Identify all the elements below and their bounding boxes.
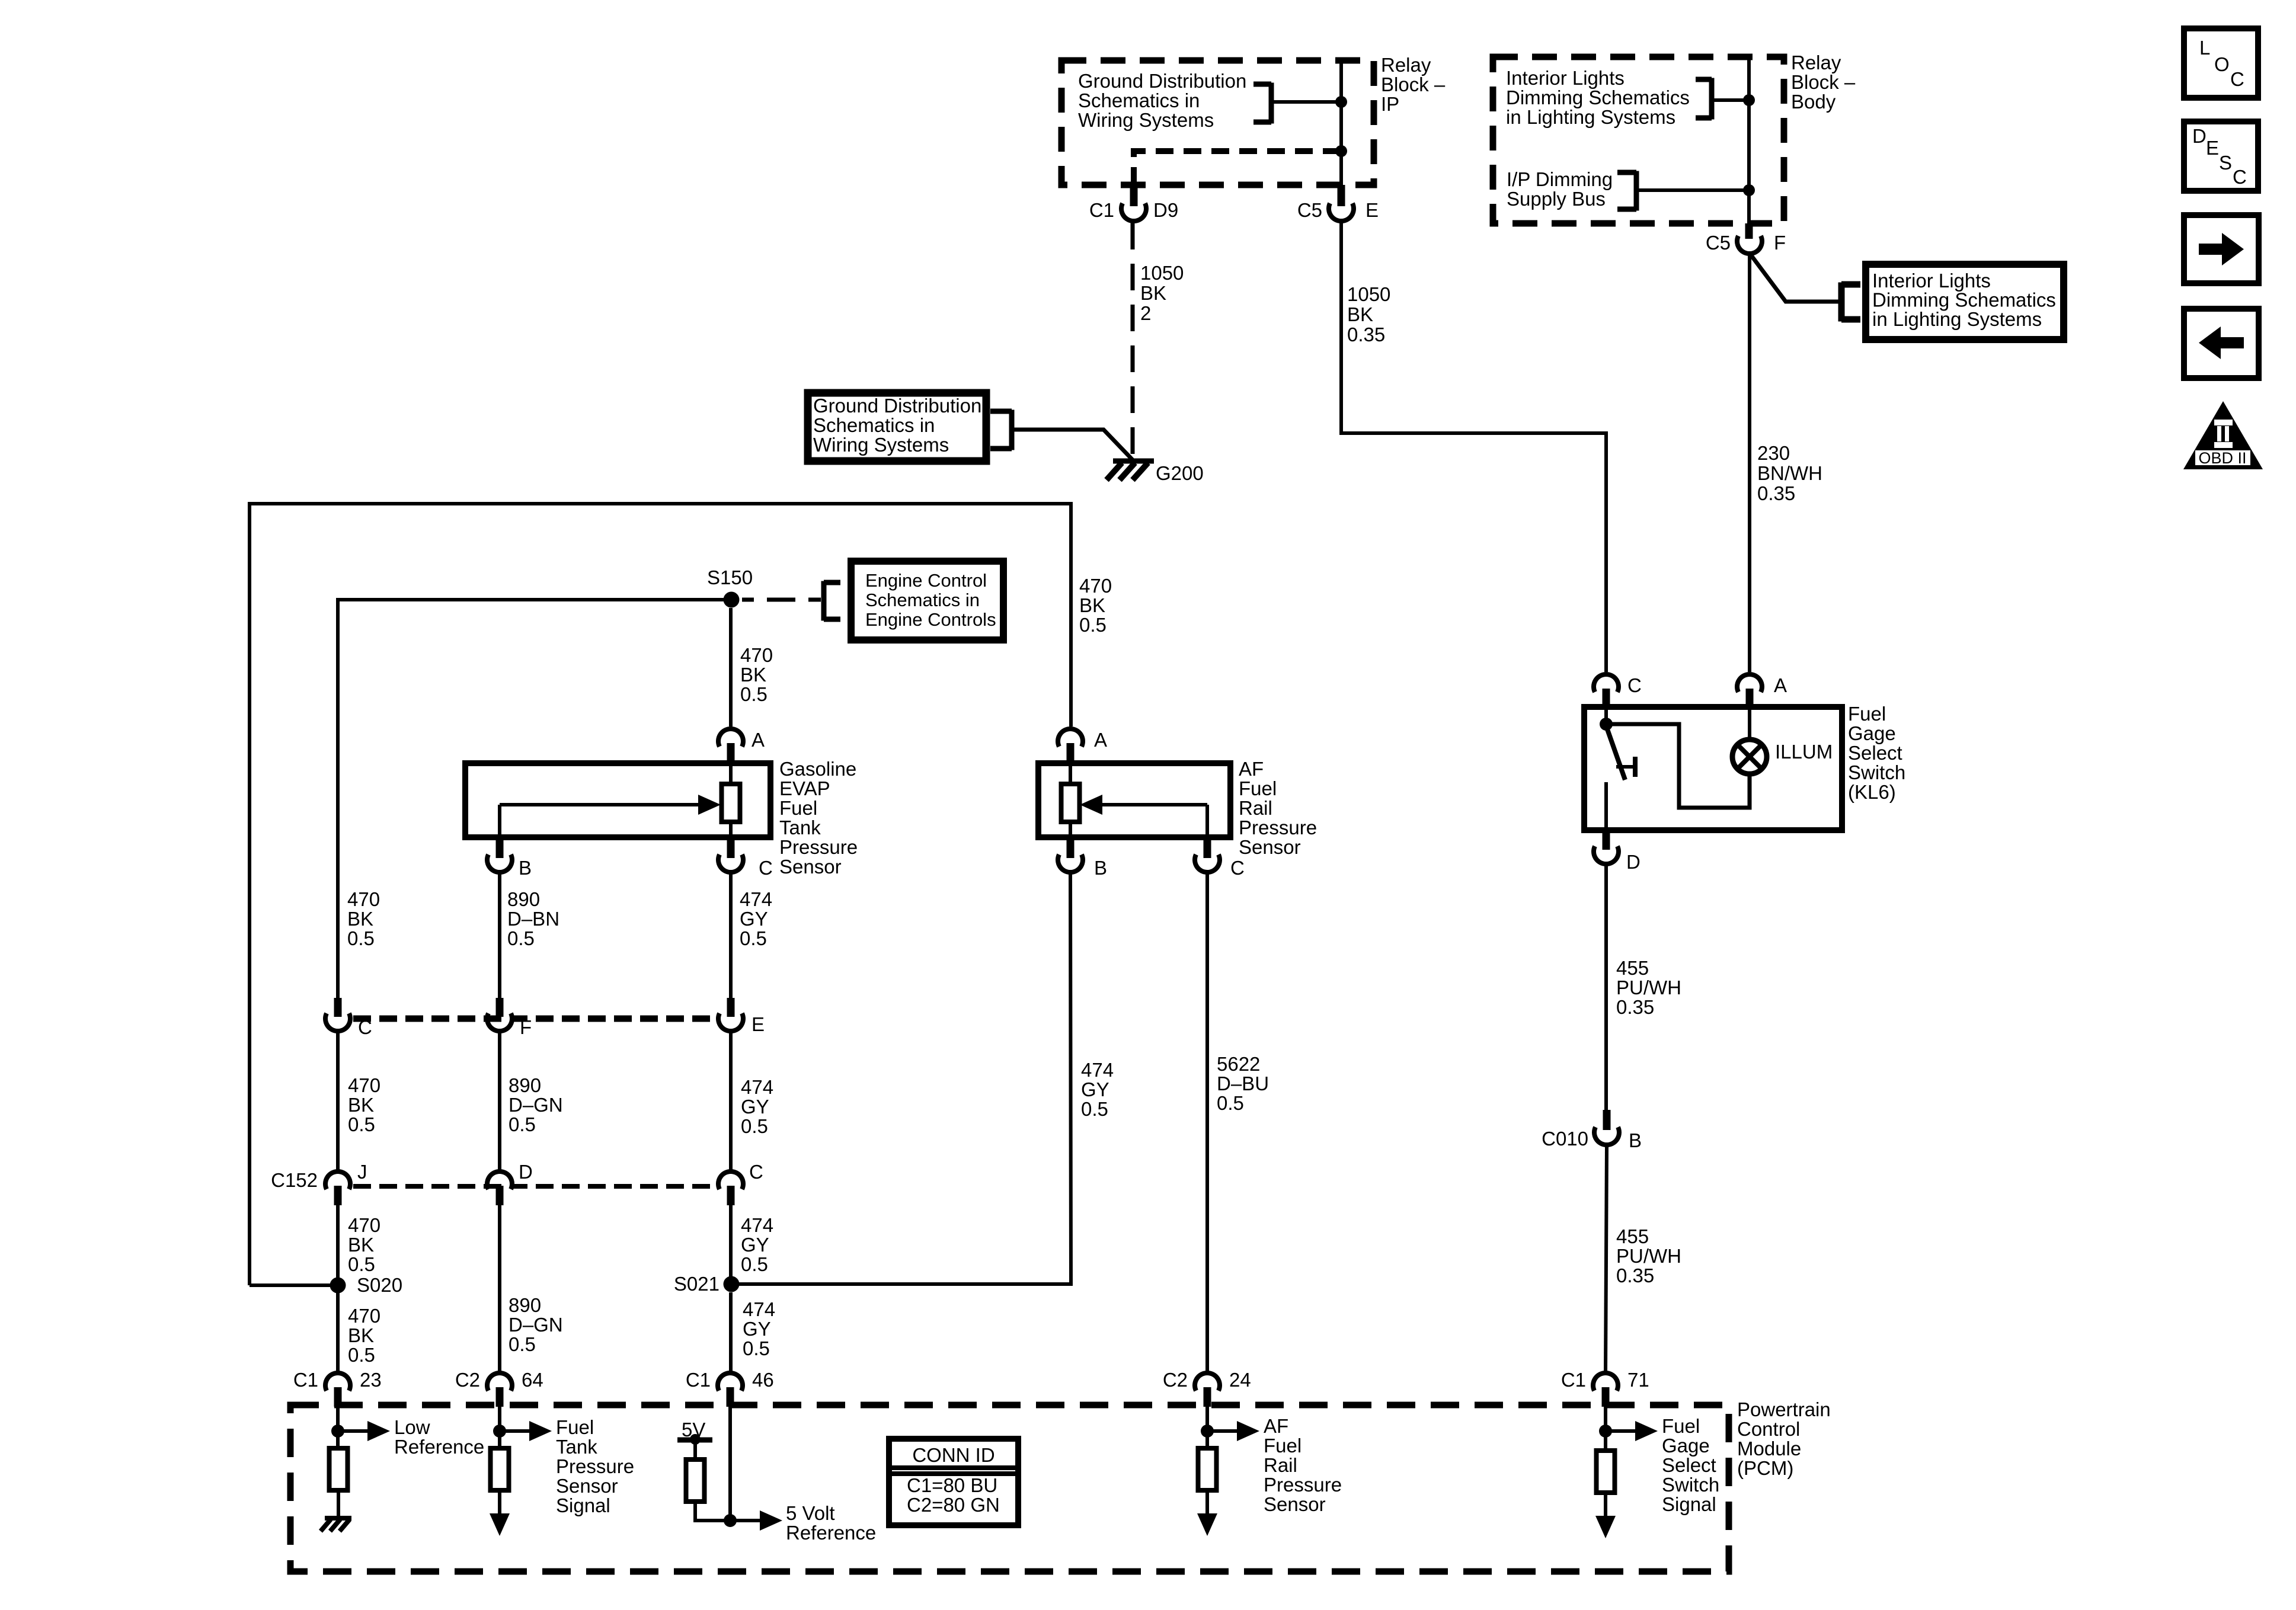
junction dot Body bus lower [1743, 184, 1755, 196]
svg-text:GY: GY [740, 908, 768, 930]
svg-text:BK: BK [740, 664, 766, 686]
relay block IP inner connector dashed box [1134, 151, 1341, 185]
relay block IP dashed outline [1061, 60, 1374, 185]
wire to resistor col5 [1604, 1431, 1607, 1451]
wire EVAP resistor to C pin [729, 822, 733, 837]
svg-text:C2=80 GN: C2=80 GN [907, 1494, 1000, 1516]
svg-text:474: 474 [741, 1076, 773, 1098]
svg-text:C1: C1 [686, 1369, 711, 1391]
svg-text:OBD II: OBD II [2198, 449, 2246, 467]
svg-text:Engine Controls: Engine Controls [865, 609, 996, 630]
svg-text:BK: BK [348, 1324, 374, 1346]
connector pin C EVAP [727, 837, 735, 858]
svg-text:E: E [1366, 199, 1379, 221]
CONN ID divider [889, 1465, 1018, 1470]
svg-text:Sensor: Sensor [779, 856, 842, 878]
wire col1 vertical upper [336, 598, 340, 998]
svg-text:Select: Select [1662, 1454, 1716, 1476]
svg-text:D–BU: D–BU [1217, 1073, 1269, 1094]
svg-text:Engine Control: Engine Control [865, 570, 987, 591]
switch blade [1606, 726, 1625, 780]
svg-text:Block –: Block – [1381, 73, 1446, 95]
svg-text:Supply Bus: Supply Bus [1507, 188, 1606, 210]
dashed wire S150 to engine control bracket [742, 598, 821, 602]
svg-text:AF: AF [1264, 1415, 1288, 1437]
svg-text:Body: Body [1791, 91, 1836, 113]
connector C5 E [1329, 203, 1354, 221]
svg-text:EVAP: EVAP [779, 777, 830, 799]
svg-text:AF: AF [1239, 758, 1264, 780]
svg-text:PU/WH: PU/WH [1616, 977, 1681, 998]
svg-text:PU/WH: PU/WH [1616, 1245, 1681, 1267]
svg-text:455: 455 [1616, 1225, 1649, 1247]
svg-text:Fuel: Fuel [1264, 1435, 1302, 1457]
svg-text:BK: BK [348, 1094, 374, 1116]
connector C1 71 [1593, 1373, 1618, 1391]
svg-text:Wiring Systems: Wiring Systems [813, 434, 949, 456]
svg-text:0.5: 0.5 [741, 1253, 768, 1275]
svg-text:Relay: Relay [1791, 52, 1841, 73]
svg-text:Control: Control [1737, 1418, 1800, 1440]
svg-text:Tank: Tank [779, 817, 821, 838]
wire C1 23 into PCM [336, 1406, 340, 1431]
connector row2 J [325, 1172, 350, 1189]
arrow EVAP wiper [500, 803, 703, 806]
svg-text:D–GN: D–GN [509, 1094, 563, 1116]
svg-text:0.5: 0.5 [1081, 1098, 1108, 1120]
connector pin A AF [1058, 729, 1083, 747]
svg-text:Switch: Switch [1848, 761, 1905, 783]
wire to resistor col4 [1205, 1431, 1209, 1448]
svg-text:0.35: 0.35 [1347, 324, 1385, 345]
box AF Fuel Rail Pressure Sensor [1038, 763, 1230, 837]
wire AF resistor to B pin [1069, 822, 1072, 837]
connector C5 E stub [1338, 185, 1345, 206]
wire S150 horizontal [338, 598, 731, 601]
svg-text:Gage: Gage [1848, 722, 1896, 744]
svg-text:IP: IP [1381, 93, 1399, 115]
wire AF C down to C2 24 [1205, 874, 1209, 1372]
wire col3 C-row1 [729, 874, 733, 998]
svg-text:470: 470 [348, 1074, 380, 1096]
dashed line connector row2 [353, 1184, 716, 1189]
wire col2 row1-row2 [498, 1033, 501, 1170]
svg-text:Interior Lights: Interior Lights [1506, 67, 1625, 89]
svg-text:C: C [358, 1016, 372, 1038]
svg-text:Dimming Schematics: Dimming Schematics [1872, 289, 2056, 311]
svg-text:C: C [1627, 674, 1642, 696]
wire loop into S020 [250, 1283, 338, 1287]
wire left vertical loop [248, 502, 251, 1285]
svg-text:5622: 5622 [1217, 1053, 1260, 1075]
svg-text:BK: BK [1347, 303, 1373, 325]
wire vertical bus in relay block IP [1339, 60, 1343, 185]
connector C1 46 [718, 1373, 743, 1391]
connector row2 C [718, 1172, 743, 1189]
box Fuel Gage Select Switch [1584, 707, 1842, 830]
svg-text:Powertrain: Powertrain [1737, 1398, 1831, 1420]
svg-text:470: 470 [348, 1214, 380, 1236]
svg-text:(KL6): (KL6) [1848, 781, 1896, 803]
svg-text:Sensor: Sensor [1264, 1493, 1326, 1515]
arrow down col5 [1604, 1493, 1607, 1521]
wire C010 to C1 71 [1606, 1147, 1607, 1372]
arrow down col4 [1205, 1490, 1209, 1518]
svg-text:I/P Dimming: I/P Dimming [1507, 168, 1613, 190]
svg-text:Signal: Signal [1662, 1493, 1716, 1515]
svg-text:Pressure: Pressure [1264, 1474, 1342, 1496]
svg-text:ILLUM: ILLUM [1775, 741, 1833, 763]
svg-text:Switch: Switch [1662, 1474, 1719, 1496]
svg-text:C152: C152 [271, 1169, 318, 1191]
connector C2 64 [487, 1373, 512, 1391]
svg-text:Module: Module [1737, 1438, 1801, 1459]
svg-text:0.5: 0.5 [1217, 1092, 1244, 1114]
svg-text:Pressure: Pressure [779, 836, 858, 858]
svg-text:0.5: 0.5 [743, 1337, 770, 1359]
svg-text:F: F [520, 1016, 532, 1038]
wire C5 E down-right to switch C [1341, 223, 1606, 672]
svg-text:Reference: Reference [786, 1522, 876, 1544]
svg-text:B: B [1094, 857, 1107, 879]
wire switch D to C010 [1604, 865, 1608, 1110]
wire 5V resistor to junction [695, 1502, 730, 1521]
resistor EVAP sensor element [722, 784, 740, 822]
icon OBD II triangle [2183, 401, 2263, 469]
svg-text:GY: GY [741, 1234, 769, 1256]
connector row2 D [487, 1172, 512, 1189]
svg-text:A: A [1774, 674, 1787, 696]
junction dot fuel tank signal [493, 1425, 506, 1438]
svg-text:A: A [752, 729, 765, 751]
svg-text:24: 24 [1229, 1369, 1251, 1391]
svg-text:Wiring Systems: Wiring Systems [1078, 109, 1214, 131]
wire bracket to G200 [1012, 430, 1133, 460]
wire AF wiper from C [1205, 805, 1209, 837]
svg-text:BK: BK [347, 908, 373, 930]
svg-text:B: B [519, 857, 532, 879]
svg-text:Fuel: Fuel [1848, 703, 1886, 725]
svg-text:474: 474 [741, 1214, 773, 1236]
svg-text:0.5: 0.5 [740, 927, 767, 949]
resistor PCM 5V [686, 1459, 705, 1502]
svg-text:in Lighting Systems: in Lighting Systems [1872, 308, 2042, 330]
svg-text:G200: G200 [1156, 462, 1204, 484]
svg-text:B: B [1629, 1129, 1642, 1151]
wire S021 to C1 46 [729, 1292, 733, 1372]
svg-text:S150: S150 [707, 566, 753, 588]
svg-text:D: D [519, 1161, 533, 1183]
wire bracket to bus (IP) [1271, 100, 1341, 104]
connector C2 24 [1195, 1373, 1220, 1391]
arrow AF wiper [1098, 803, 1207, 806]
svg-text:C: C [1230, 857, 1245, 879]
connector C5 F [1737, 236, 1762, 254]
wire col2 B-row1 [498, 874, 501, 998]
connector pin A switch [1737, 674, 1762, 692]
arrow AF signal [1207, 1429, 1242, 1433]
svg-text:0.5: 0.5 [348, 1253, 375, 1275]
box Engine Control Schematics in Engine Controls [851, 561, 1003, 640]
wire AF A to resistor [1069, 763, 1072, 784]
svg-text:0.35: 0.35 [1757, 482, 1795, 504]
wire C2 64 into PCM [498, 1406, 501, 1431]
svg-text:0.5: 0.5 [509, 1113, 536, 1135]
svg-text:in Lighting Systems: in Lighting Systems [1506, 106, 1675, 128]
svg-text:S: S [2219, 152, 2232, 174]
svg-text:0.5: 0.5 [509, 1333, 536, 1355]
svg-text:J: J [357, 1161, 367, 1183]
svg-text:C1: C1 [1089, 199, 1114, 221]
svg-text:C1: C1 [293, 1369, 318, 1391]
svg-text:470: 470 [347, 888, 380, 910]
bracket I/P dimming supply bus [1634, 171, 1639, 211]
svg-text:5 Volt: 5 Volt [786, 1502, 835, 1524]
svg-text:0.5: 0.5 [348, 1113, 375, 1135]
svg-text:C: C [759, 857, 773, 879]
connector pin A EVAP [718, 729, 743, 747]
connector row1 E [727, 998, 735, 1017]
svg-text:474: 474 [1081, 1059, 1114, 1081]
box Interior Lights Dimming Schematics in Lighting Systems [1866, 264, 2064, 340]
junction dot Body bus upper [1743, 94, 1755, 106]
connector C1 D9 [1121, 203, 1146, 221]
wire col1 row2-S020 [336, 1204, 340, 1285]
svg-text:890: 890 [509, 1294, 541, 1316]
svg-text:Fuel: Fuel [556, 1416, 594, 1438]
wire C1 46 into PCM [728, 1406, 732, 1521]
svg-text:Schematics in: Schematics in [1078, 89, 1200, 111]
wire C5 F down to switch A [1748, 255, 1751, 672]
svg-text:BN/WH: BN/WH [1757, 462, 1822, 484]
resistor PCM fuel tank [491, 1448, 509, 1490]
wire col1 row1-row2 [336, 1033, 340, 1170]
svg-text:C: C [2230, 68, 2244, 90]
arrow fuel tank signal [500, 1429, 534, 1433]
junction dot IP bus lower [1335, 145, 1347, 157]
svg-text:(PCM): (PCM) [1737, 1457, 1793, 1479]
lamp ILLUM cross [1738, 745, 1761, 769]
svg-text:0.5: 0.5 [507, 927, 535, 949]
svg-text:C: C [2233, 166, 2247, 188]
svg-text:Ground Distribution: Ground Distribution [813, 395, 981, 417]
svg-text:Fuel: Fuel [1662, 1415, 1700, 1437]
svg-text:1050: 1050 [1347, 283, 1390, 305]
wire bracket2 to bus (Body) [1636, 188, 1749, 192]
icon right-arrow [2199, 244, 2224, 255]
svg-text:0.35: 0.35 [1616, 996, 1654, 1018]
svg-text:Select: Select [1848, 742, 1902, 764]
svg-text:C2: C2 [455, 1369, 480, 1391]
svg-text:GY: GY [1081, 1078, 1109, 1100]
wire resistor to ground col1 [337, 1490, 340, 1518]
icon left-arrow box [2184, 309, 2259, 378]
relay block Body dashed outline [1493, 57, 1784, 223]
svg-text:Interior Lights: Interior Lights [1872, 270, 1991, 292]
svg-text:Gasoline: Gasoline [779, 758, 856, 780]
splice S150 [724, 592, 740, 608]
svg-text:GY: GY [741, 1096, 769, 1118]
svg-text:D9: D9 [1153, 199, 1178, 221]
wire col3 row1-row2 [729, 1033, 733, 1170]
wire 5V to resistor [693, 1440, 697, 1459]
svg-text:0.5: 0.5 [740, 683, 768, 705]
junction dot 5 volt reference [724, 1514, 737, 1527]
ground G200 [1113, 459, 1154, 464]
5V supply dot [690, 1434, 701, 1445]
dashed wire 1050 BK 2 to G200 [1131, 223, 1135, 456]
icon left-arrow [2219, 337, 2244, 348]
connector C010 B [1603, 1110, 1611, 1130]
svg-text:64: 64 [522, 1369, 543, 1391]
wire S150 down to EVAP A [729, 608, 733, 726]
junction dot IP bus upper [1335, 96, 1347, 108]
svg-text:Gage: Gage [1662, 1435, 1710, 1457]
svg-text:BK: BK [1079, 594, 1105, 616]
wire to resistor col2 [498, 1431, 501, 1448]
connector row1 F [496, 998, 504, 1017]
svg-text:C5: C5 [1297, 199, 1322, 221]
wire switch A to lamp [1748, 707, 1751, 740]
svg-text:O: O [2214, 53, 2230, 75]
svg-text:E: E [752, 1013, 765, 1035]
svg-text:1050: 1050 [1140, 262, 1184, 284]
icon OBD II pillar [2214, 420, 2233, 448]
wire bracket1 to bus (Body) [1712, 98, 1749, 102]
wire switch to lamp path [1610, 724, 1750, 808]
svg-text:C010: C010 [1542, 1128, 1588, 1150]
icon DESC box [2184, 121, 2258, 191]
connector C1 23 [325, 1373, 350, 1391]
svg-text:C: C [749, 1161, 763, 1183]
junction dot low reference [331, 1425, 344, 1438]
svg-text:Low: Low [394, 1416, 430, 1438]
svg-text:C2: C2 [1163, 1369, 1188, 1391]
svg-text:0.5: 0.5 [741, 1115, 768, 1137]
svg-text:Dimming Schematics: Dimming Schematics [1506, 87, 1690, 108]
wire EVAP A to resistor [729, 763, 733, 784]
svg-text:BK: BK [348, 1234, 374, 1256]
arrow down col2 [498, 1490, 501, 1518]
svg-text:890: 890 [507, 888, 540, 910]
wire C1 71 into PCM [1604, 1406, 1607, 1431]
svg-text:Schematics in: Schematics in [865, 590, 980, 610]
svg-text:Rail: Rail [1239, 797, 1272, 819]
svg-text:46: 46 [752, 1369, 774, 1391]
svg-text:D–BN: D–BN [507, 908, 559, 930]
connector pin D switch [1603, 830, 1610, 850]
junction dot fuel gage signal [1599, 1425, 1612, 1438]
bracket engine control schematics [821, 581, 827, 621]
box Gasoline EVAP Fuel Tank Pressure Sensor [465, 763, 770, 837]
icon LOC box [2184, 28, 2258, 98]
bracket ground distribution left box [1009, 410, 1015, 450]
svg-text:71: 71 [1627, 1369, 1649, 1391]
svg-text:S020: S020 [357, 1274, 402, 1296]
svg-text:Block –: Block – [1791, 71, 1856, 93]
svg-text:474: 474 [740, 888, 772, 910]
svg-text:470: 470 [348, 1305, 380, 1327]
resistor PCM AF [1198, 1448, 1217, 1490]
svg-text:C1: C1 [1561, 1369, 1586, 1391]
svg-text:BK: BK [1140, 282, 1166, 304]
svg-text:Fuel: Fuel [1239, 777, 1277, 799]
resistor PCM low ref [330, 1448, 348, 1490]
svg-text:230: 230 [1757, 442, 1790, 464]
svg-text:C1=80 BU: C1=80 BU [907, 1474, 997, 1496]
svg-text:0.5: 0.5 [347, 927, 375, 949]
icon right-arrow box [2184, 215, 2259, 283]
splice S021 [724, 1276, 740, 1292]
wire col3 row2-S021 [729, 1204, 733, 1277]
box Ground Distribution Schematics in Wiring Systems [808, 393, 986, 461]
svg-text:C5: C5 [1706, 232, 1731, 254]
svg-text:L: L [2199, 37, 2210, 59]
svg-text:D–GN: D–GN [509, 1314, 563, 1336]
wire col2 row2-C2 64 [498, 1204, 501, 1372]
svg-text:E: E [2206, 137, 2219, 159]
svg-text:470: 470 [740, 644, 773, 666]
arrow 5 volt reference [730, 1519, 765, 1522]
splice S020 [330, 1278, 346, 1294]
svg-text:D: D [1626, 851, 1641, 873]
svg-text:0.5: 0.5 [348, 1344, 375, 1366]
wire switch C internal [1604, 707, 1608, 724]
svg-text:CONN ID: CONN ID [912, 1444, 994, 1466]
svg-text:Reference: Reference [394, 1436, 484, 1458]
PCM dashed box [290, 1405, 1729, 1571]
resistor PCM fuel gage [1597, 1451, 1615, 1493]
wire vertical bus in relay block Body [1747, 57, 1751, 223]
connector pin B EVAP [496, 837, 504, 858]
wire AF col down from loop [1069, 502, 1073, 726]
wire EVAP wiper from B [498, 805, 501, 837]
connector pin B AF [1067, 837, 1075, 858]
svg-text:474: 474 [743, 1298, 775, 1320]
svg-text:Rail: Rail [1264, 1454, 1297, 1476]
svg-text:470: 470 [1079, 575, 1112, 597]
svg-text:Ground Distribution: Ground Distribution [1078, 70, 1246, 92]
svg-text:Pressure: Pressure [1239, 817, 1317, 838]
svg-text:455: 455 [1616, 957, 1649, 979]
wire top horizontal loop [250, 502, 1071, 505]
wire to resistor col1 [336, 1431, 340, 1448]
svg-text:D: D [2192, 125, 2207, 147]
resistor AF sensor element [1061, 784, 1080, 822]
wire diagonal from C5 F to lighting box [1751, 255, 1838, 302]
dashed line connector row1 [353, 1016, 716, 1022]
switch contact T [1616, 765, 1633, 769]
svg-text:F: F [1774, 232, 1786, 254]
svg-text:Schematics in: Schematics in [813, 414, 935, 436]
svg-text:2: 2 [1140, 302, 1151, 324]
connector pin C switch [1604, 658, 1608, 672]
svg-text:Sensor: Sensor [1239, 836, 1301, 858]
connector pin C AF [1204, 837, 1211, 858]
wire switch lower to D [1604, 782, 1608, 830]
svg-text:Pressure: Pressure [556, 1455, 634, 1477]
svg-text:Tank: Tank [556, 1436, 597, 1458]
svg-text:0.35: 0.35 [1616, 1265, 1654, 1286]
bracket interior lights dimming [1709, 78, 1715, 120]
ground PCM internal [325, 1516, 351, 1521]
svg-text:Signal: Signal [556, 1494, 610, 1516]
svg-text:0.5: 0.5 [1079, 614, 1107, 636]
junction dot switch [1600, 718, 1613, 731]
icon OBD II band [2195, 450, 2250, 465]
arrow fuel gage signal [1606, 1429, 1640, 1433]
lamp ILLUM circle [1732, 740, 1767, 774]
